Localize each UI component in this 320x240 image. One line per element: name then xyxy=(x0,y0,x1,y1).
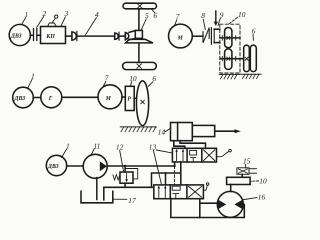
svg-text:ДВЗ: ДВЗ xyxy=(10,34,22,40)
relief valve spring xyxy=(113,175,120,180)
svg-text:10: 10 xyxy=(238,10,246,19)
pump 11 circle xyxy=(83,154,107,178)
pump triangle xyxy=(100,161,107,171)
link engine-generator xyxy=(33,97,41,99)
upper gear xyxy=(225,28,232,48)
link engine-pump xyxy=(67,165,84,167)
engine DVZ circle xyxy=(9,24,30,45)
ground under gearbox xyxy=(219,74,239,79)
valve15 to tank10 link xyxy=(241,174,243,177)
top wheel xyxy=(123,3,157,9)
tank 17 xyxy=(81,191,113,203)
leader 10 xyxy=(130,82,131,86)
ground under wheel xyxy=(120,127,156,132)
svg-text:17: 17 xyxy=(128,196,136,205)
svg-text:16: 16 xyxy=(258,193,266,202)
leader 10 xyxy=(228,18,238,25)
lower valve cell2 blocked ports xyxy=(172,186,180,190)
svg-text:5: 5 xyxy=(145,11,149,20)
generator G circle xyxy=(41,87,62,108)
svg-text:14: 14 xyxy=(158,128,166,137)
top wheel x-mark xyxy=(138,4,143,8)
leader 10 xyxy=(251,180,259,182)
svg-text:8: 8 xyxy=(201,11,205,20)
return line to tank xyxy=(104,187,154,200)
differential input square 5 xyxy=(135,30,142,38)
upper valve cell1 arrows xyxy=(176,150,178,161)
leader 7 xyxy=(103,82,105,87)
wheel x-mark xyxy=(245,57,248,60)
lower valve cell3 cross arrows xyxy=(189,186,202,197)
lower control valve body xyxy=(154,185,204,199)
svg-text:Р: Р xyxy=(127,96,131,102)
svg-text:М: М xyxy=(177,35,184,41)
engine DVZ circle xyxy=(46,155,66,175)
shaft reducer to wheel xyxy=(134,97,136,99)
svg-text:6: 6 xyxy=(252,26,256,35)
gearbox dashed housing 10 xyxy=(220,24,240,73)
junction dot at relief valve tap xyxy=(124,165,126,167)
leader 1 xyxy=(28,79,32,88)
lower gear xyxy=(225,49,232,70)
shaft KP to joint xyxy=(66,35,72,37)
lower half axle xyxy=(138,43,140,63)
leader 16 xyxy=(243,198,257,200)
leader 1 xyxy=(62,149,67,157)
upper valve return drop xyxy=(180,162,182,185)
final drive cone xyxy=(125,33,128,39)
relief valve pilot loop xyxy=(125,169,138,179)
engine DVZ circle xyxy=(13,87,34,108)
svg-text:М: М xyxy=(105,96,112,102)
cylinder pipe B staircase xyxy=(180,141,206,149)
cardan joint (bell + bar) xyxy=(72,32,76,40)
lower shaft bearings xyxy=(221,57,223,61)
upper valve lever xyxy=(217,151,229,156)
leader 6 xyxy=(148,82,153,87)
lower valve lever xyxy=(203,185,207,190)
upper half axle xyxy=(138,9,140,31)
P line to upper valve xyxy=(174,162,176,166)
svg-text:7: 7 xyxy=(176,12,180,21)
svg-text:ДВЗ: ДВЗ xyxy=(14,96,26,102)
leader 17 xyxy=(114,198,127,200)
leader 5 xyxy=(141,19,146,30)
svg-text:3: 3 xyxy=(64,9,69,18)
pump suction line xyxy=(96,178,98,200)
shaft to final drive xyxy=(119,35,125,37)
shaft M to reducer xyxy=(122,96,125,98)
bottom wheel xyxy=(123,62,157,69)
hydraulic cylinder 14 barrel xyxy=(171,123,193,141)
relief valve drain xyxy=(124,183,126,187)
leader 2 xyxy=(37,17,44,28)
engage arrow 9 xyxy=(215,11,217,22)
coupling 2 (two bars) xyxy=(33,29,35,41)
electric line G to M xyxy=(62,96,98,98)
rod-side box xyxy=(192,125,214,136)
clutch fork lever 8 xyxy=(203,28,209,43)
lower shaft xyxy=(221,58,244,60)
svg-text:10: 10 xyxy=(129,74,137,83)
hydraulic motor 16 xyxy=(217,191,243,217)
ground under wheel xyxy=(240,74,261,78)
pressure line from pump xyxy=(107,165,174,167)
motor shaft xyxy=(192,35,203,37)
lower gear x-mark xyxy=(227,57,230,60)
tap down to relief valve xyxy=(124,166,126,172)
wheel 6 inner xyxy=(250,45,256,71)
svg-text:4: 4 xyxy=(95,10,99,19)
svg-text:ДВЗ: ДВЗ xyxy=(47,164,59,170)
upper valve cell3 cross arrows xyxy=(204,150,215,161)
cylinder pipe A xyxy=(174,141,185,149)
motor right triangle xyxy=(234,200,242,210)
leader 15 xyxy=(245,165,247,169)
leader 9 xyxy=(218,18,220,25)
svg-text:15: 15 xyxy=(243,157,251,166)
lower valve return to bottom xyxy=(171,199,245,218)
upper control valve body xyxy=(172,148,216,162)
wheel x-mark xyxy=(141,100,145,104)
svg-text:1: 1 xyxy=(31,72,35,81)
tank10 to motor link xyxy=(230,185,232,192)
lower valve cell1 arrows xyxy=(158,187,160,198)
leader 6 xyxy=(252,34,254,40)
relief valve 12 box xyxy=(120,172,133,183)
clutch coupling xyxy=(210,28,212,45)
leader 3 xyxy=(61,17,65,26)
upper gear x-mark xyxy=(227,36,230,39)
motor left triangle xyxy=(218,200,226,210)
wheel 6 xyxy=(136,81,148,126)
svg-text:Г: Г xyxy=(48,96,53,102)
svg-text:1: 1 xyxy=(25,10,29,19)
leader 7 xyxy=(174,20,177,26)
cardan joint mid (bell + bar) xyxy=(115,33,119,39)
propeller shaft xyxy=(77,35,115,37)
piston xyxy=(177,123,179,141)
gearbox KP box xyxy=(41,27,66,44)
reducer P box xyxy=(125,86,134,110)
upper shaft bearings xyxy=(221,36,223,40)
dashed pilot line down to lower valve xyxy=(174,166,176,185)
svg-text:10: 10 xyxy=(259,176,267,185)
reservoir 10 box xyxy=(227,177,251,184)
leader 11 xyxy=(91,149,95,156)
cross line to lower valve xyxy=(152,173,166,187)
upper shaft xyxy=(220,37,240,39)
axle housing trapezoid xyxy=(126,39,153,43)
piston rod xyxy=(215,130,235,132)
gear lever on KP xyxy=(48,23,57,27)
relief valve arrow xyxy=(126,174,128,181)
wheel 6 outer xyxy=(244,45,250,71)
final drive joint bar xyxy=(124,32,126,40)
lower valve right drain xyxy=(199,199,201,218)
motor M circle xyxy=(169,24,193,48)
rod arrow xyxy=(235,129,241,133)
leader 4 xyxy=(86,18,97,35)
leader 13a xyxy=(156,150,172,153)
leader 8 xyxy=(203,19,205,29)
shaft engine to coupling xyxy=(30,34,33,36)
leader 1 xyxy=(22,18,26,24)
bottom wheel x-mark xyxy=(137,64,142,68)
leader 14 xyxy=(165,128,171,132)
motor M circle xyxy=(98,85,122,109)
lower valve to motor line xyxy=(200,202,218,204)
leader 13b xyxy=(153,150,161,184)
check valve 15 xyxy=(237,168,249,175)
svg-text:КП: КП xyxy=(45,34,55,40)
leader 12 xyxy=(120,151,124,172)
junction dot xyxy=(173,165,175,167)
upper valve cell2 blocked ports xyxy=(190,150,197,155)
leader 6 xyxy=(152,9,155,13)
svg-text:13: 13 xyxy=(149,142,157,151)
